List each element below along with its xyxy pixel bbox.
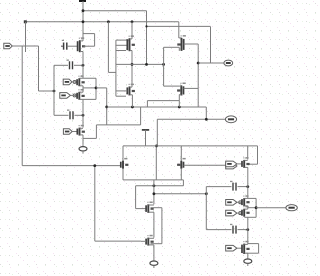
ground G1 — [79, 145, 87, 154]
wire M2 drain jog — [130, 38, 132, 40]
wire cap C3 right lead — [238, 186, 248, 188]
transistor M3 — [177, 35, 186, 51]
wire stub y=96.2 — [116, 95, 126, 97]
node junction line5/right box — [205, 192, 208, 195]
wire cell1 loop bottom — [80, 98, 97, 100]
wire P5 to M14 gate — [237, 163, 242, 165]
transistor M7 — [127, 84, 135, 96]
wire M17 diode loop right — [258, 244, 260, 254]
node junction x=54/y=91 — [53, 90, 56, 93]
wire latch middle horizontal y=64.4 — [116, 63, 164, 65]
wire vertical x=198.2 — [197, 44, 199, 107]
wire spine3 between M15 M16 — [247, 206, 249, 209]
wire M11 drain up — [180, 146, 182, 161]
wire horizontal y=124.9 — [96, 124, 140, 126]
wire line-C horizontal y=26.4 — [147, 25, 211, 27]
wire spine2 lower — [153, 180, 155, 204]
wire M3 source down — [178, 47, 180, 51]
node cell1 output — [95, 87, 98, 90]
wire M13 drain jog — [149, 237, 154, 239]
wire M5 drain jog — [80, 91, 84, 93]
wire M17 source jog — [244, 252, 247, 254]
wire M6 loop right — [95, 125, 97, 138]
wire M2 source down to M7 — [131, 51, 133, 88]
input port P4 — [226, 163, 237, 169]
wire stub y=40.1 — [116, 39, 130, 41]
wire M17 diode loop top — [248, 243, 259, 245]
capacitor C4 — [230, 224, 236, 234]
transistor M2 — [127, 35, 135, 51]
wire spine3 M14 to cell2 — [247, 167, 249, 198]
wire line5 horizontal y=193.8 — [154, 193, 206, 195]
wire spine M5 to M6 — [82, 100, 84, 128]
transistor M6 — [77, 125, 85, 136]
wire M13 bulk lead — [151, 243, 162, 245]
wire bulk vertical x=161.9 — [161, 208, 163, 244]
input port P1 — [63, 79, 72, 85]
output port OUT3 — [286, 205, 297, 211]
node junction spine2/rail2 — [155, 145, 158, 148]
wire M9 drain jog — [179, 85, 181, 87]
wire cell1 loop right — [95, 78, 97, 99]
capacitor C3 — [230, 181, 236, 191]
wire line-B horizontal y=21.8 — [25, 21, 179, 23]
wire M2 drain up to line-B — [131, 22, 133, 39]
node junction line-B / M2 drain — [131, 20, 134, 23]
wire cell2 loop top — [244, 197, 256, 199]
wire M4 source jog — [80, 85, 84, 87]
transistor M4 — [77, 75, 85, 86]
transistor M14 — [242, 157, 250, 168]
wire M7 drain jog — [130, 86, 132, 88]
wire M1 drain jog — [80, 40, 83, 42]
vdd tick mid — [142, 130, 149, 146]
wire M2 gate lead — [116, 44, 127, 46]
input port P5 — [226, 161, 237, 167]
wire input to x=38.5 — [12, 45, 38, 47]
wire M13 source jog — [149, 244, 154, 246]
node cell2 output — [255, 206, 258, 209]
vdd supply tick — [79, 0, 86, 2]
wire spine2 mid — [155, 146, 157, 180]
node junction spine/line-B — [82, 20, 85, 23]
wire stub y=50.5 — [116, 50, 126, 52]
node junction y=119.3 — [205, 118, 208, 121]
node junction spine/C2 — [82, 114, 85, 117]
input port P6 — [226, 200, 237, 206]
wire latch left outer vertical — [107, 22, 109, 73]
wire cap C4 right lead — [238, 229, 248, 231]
wire M10 source down — [122, 169, 124, 180]
node junction rail/M9 source — [178, 106, 181, 109]
wire M14 source jog — [244, 166, 247, 168]
node junction vdd/line-A — [82, 9, 85, 12]
wire M11 gate to port P4 — [184, 164, 226, 166]
wire spine M1 to C1 node — [82, 52, 84, 66]
wire cell1 mid tap — [83, 87, 96, 89]
gate bias symbol at M1 gate — [61, 40, 67, 50]
wire cap C2 right lead — [75, 114, 84, 116]
wire M3 drain jog — [179, 37, 182, 39]
wire vertical x=106.7 — [106, 88, 108, 125]
transistor M12 — [146, 202, 154, 213]
wire left vertical upper x=25.5 — [25, 22, 27, 52]
transistor M10 — [121, 158, 129, 169]
wire M11 source down — [180, 169, 182, 180]
wire latch loop bottom to M9 drain — [164, 85, 180, 87]
node junction spine/line5 — [153, 192, 156, 195]
wire line4 horizontal y=185.8 — [136, 185, 184, 187]
wire M1 diode loop bottom into bulk — [84, 45, 95, 47]
wire spine3 cell2 to M17 — [247, 217, 249, 244]
ground G3 — [244, 257, 252, 266]
wire latch left inner vertical — [115, 40, 117, 96]
node junction middle line x=163.6 — [162, 63, 165, 66]
transistor M13 — [146, 235, 154, 246]
wire spine between M4 M5 — [82, 86, 84, 92]
output port OUT2 — [224, 60, 233, 66]
transistor M11 — [177, 158, 186, 169]
wire M14 diode loop bottom — [246, 163, 257, 165]
wire P1 to M4 gate — [72, 81, 77, 83]
wire horizontal y=119.3 to port — [157, 118, 225, 120]
input port IN — [4, 43, 13, 48]
wire rail loop top y=100.6 — [147, 100, 179, 102]
wire M17 diode loop bottom — [246, 252, 258, 254]
wire latch left jog y=72.4 — [108, 71, 116, 73]
wire cell2 loop bottom — [244, 216, 256, 218]
wire cap C2 left lead — [54, 114, 69, 116]
wire M15 source jog — [244, 205, 247, 207]
wire M1 gate lead — [67, 45, 78, 47]
wire feedback box bottom y=241.1 — [95, 240, 141, 242]
wire vertical x=135.6 to M12 gate — [135, 186, 137, 209]
node junction rail/M7 source — [131, 106, 134, 109]
node junction line-B / left box — [107, 20, 110, 23]
wire M12 to M13 — [153, 212, 155, 237]
wire M6 drain jog — [80, 127, 83, 129]
wire M12 drain jog — [149, 204, 154, 206]
wire M2 source jog — [130, 50, 132, 52]
output port OUT1 — [225, 116, 236, 123]
node junction spine/C1 — [82, 64, 85, 67]
wire M12 source jog — [149, 211, 154, 213]
corner node at line-B left end — [24, 20, 27, 23]
wire jog x=206.3 — [205, 107, 207, 119]
wire M17 source down — [247, 253, 249, 257]
transistor M16 — [242, 206, 250, 217]
transistor M9 — [177, 83, 186, 96]
wire right box left vertical x=206.3 — [205, 187, 207, 230]
transistor M1 (diode-connected PMOS) — [78, 37, 86, 52]
wire rail loop left — [146, 101, 148, 107]
node junction y=165.6 feedback — [93, 164, 96, 167]
wire cell2 mid tap — [248, 207, 256, 209]
input port P8 — [226, 245, 237, 251]
wire bias vertical x=146.5 — [146, 11, 148, 65]
wire rail3 horizontal y=179.9 — [123, 179, 183, 181]
wire M7 source down to rail — [131, 95, 133, 107]
wire vertical x=140.6 — [140, 107, 142, 125]
transistor M15 — [242, 195, 250, 206]
wire M6 source down — [82, 135, 84, 145]
wire M1 source jog — [80, 51, 83, 53]
wire P3 to M6 gate — [72, 131, 77, 133]
wire cap C3 left lead — [206, 186, 231, 188]
node junction middle line x=146.5 — [145, 63, 148, 66]
wire feedback box left x=94.8 — [94, 166, 96, 242]
node junction spine/line4 — [153, 184, 156, 187]
wire M13 source down — [153, 245, 155, 259]
node junction line-C/bias vertical — [145, 25, 147, 27]
wire M1 diode loop right — [94, 34, 96, 47]
wire cell1 tap to x=106.7 — [96, 87, 107, 89]
wire spine C1 node to M4 — [82, 65, 84, 78]
wire spine2 upper x=157.3 — [156, 119, 158, 146]
capacitor C2 — [67, 110, 73, 120]
wire latch inner loop left vertical — [163, 47, 165, 86]
wire M14 drain jog — [244, 159, 247, 161]
wire long horizontal y=165.6 to M10 gate — [22, 165, 121, 167]
wire left vertical long x=22.2 — [21, 46, 23, 166]
wire cell1 loop top — [80, 77, 97, 79]
wire rail3 right end down — [182, 180, 184, 186]
node junction spine3/C4 — [246, 228, 249, 231]
wire M3 source jog — [164, 46, 180, 48]
node junction x=198.2/port wire — [197, 62, 200, 65]
wire M12 bulk lead — [151, 207, 162, 209]
input port P7 — [226, 210, 237, 216]
input port P2 — [60, 93, 71, 99]
node junction spine3/C3 — [246, 185, 249, 188]
wire horizontal y=91 — [39, 90, 55, 92]
wire cap C1 right lead — [74, 64, 83, 66]
wire vdd spine down to M1 — [82, 1, 84, 41]
wire P6 to M15 gate — [237, 201, 242, 203]
wire cap C4 left lead — [206, 229, 231, 231]
wire M3 gate lead right — [184, 43, 199, 45]
wire vertical x=38.5 — [38, 46, 40, 91]
node junction x=106.7 / rail y=107 — [105, 106, 108, 109]
wire to output port OUT3 — [256, 207, 286, 209]
transistor M5 — [77, 89, 85, 100]
wire vertical x=210.5 — [210, 27, 212, 63]
wire vertical x=54 — [53, 65, 55, 115]
wire M13 gate lead — [141, 240, 146, 242]
wire M10 drain up — [122, 146, 124, 161]
capacitor C1 — [67, 60, 73, 70]
wire cap C1 left lead — [54, 64, 68, 66]
wire M16 drain jog — [244, 208, 247, 210]
wire M9 gate lead right — [184, 87, 199, 89]
wire M9 source jog — [179, 94, 181, 96]
wire M6 loop bottom — [83, 137, 96, 139]
wire line-B corner down to M3 — [178, 22, 180, 38]
wire M7 source jog — [130, 94, 133, 96]
wire M12 gate lead — [136, 208, 147, 210]
wire M7 gate lead — [116, 90, 127, 92]
wire line-A horizontal y=10.7 — [83, 10, 147, 12]
input port P3 — [63, 129, 72, 135]
wire P8 to M17 gate — [237, 247, 242, 249]
wire M6 source jog — [80, 134, 83, 136]
ground G2 — [150, 259, 158, 268]
wire rail2 horizontal y=145.9 — [123, 145, 258, 147]
transistor M17 — [242, 241, 250, 254]
wire P7 to M16 gate — [237, 212, 242, 214]
node junction middle line x=132 — [131, 63, 134, 66]
wire P2 to M5 gate — [70, 94, 77, 96]
wire to output port OUT2 — [198, 62, 224, 64]
wire M14 diode loop right — [257, 146, 259, 164]
wire M9 source down to rail loop — [178, 95, 180, 101]
wire rail horizontal y=107 — [107, 106, 207, 108]
wire M1 diode loop top — [83, 33, 95, 35]
wire M14 drain from rail2 — [247, 146, 249, 160]
wire M17 drain jog — [244, 243, 247, 245]
wire cell2 loop right — [255, 198, 257, 217]
wire rail loop right — [178, 101, 180, 107]
